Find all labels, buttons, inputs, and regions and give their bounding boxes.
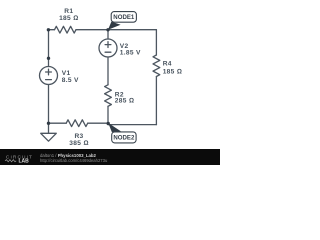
node flag NODE2 — [108, 123, 136, 143]
wire V2 top lead — [107, 30, 109, 39]
svg-text:NODE1: NODE1 — [113, 14, 135, 21]
wire right column top — [155, 30, 157, 55]
svg-text:http://circuitlab.com/c4469dea: http://circuitlab.com/c4469deah273u — [40, 158, 108, 163]
resistor R1 — [55, 26, 77, 33]
svg-text:185 Ω: 185 Ω — [59, 15, 78, 22]
svg-text:8.5 V: 8.5 V — [62, 77, 79, 84]
wire R3 to node B — [88, 122, 109, 124]
wire R2 to bottom node — [107, 106, 109, 123]
wire V1 to ground node — [48, 85, 50, 124]
junction node NODE2 anchor — [107, 122, 110, 125]
svg-text:R3: R3 — [74, 133, 83, 140]
voltage source V1 — [40, 58, 58, 84]
resistor R3 — [66, 120, 88, 127]
svg-text:LAB: LAB — [19, 158, 30, 164]
junction node NODE1 anchor — [106, 28, 109, 31]
svg-text:R4: R4 — [163, 61, 172, 68]
junction dot V1 top terminal — [47, 57, 50, 60]
junction dot top-left corner — [47, 28, 50, 31]
resistor R4 — [153, 55, 160, 77]
caption bar — [0, 149, 220, 165]
voltage source V2 — [99, 39, 117, 57]
svg-text:NODE2: NODE2 — [113, 135, 135, 142]
svg-text:285 Ω: 285 Ω — [115, 98, 134, 105]
svg-text:R1: R1 — [64, 8, 73, 15]
wire bottom right segment — [108, 124, 156, 126]
svg-text:385 Ω: 385 Ω — [69, 140, 88, 147]
svg-text:185 Ω: 185 Ω — [163, 68, 182, 75]
node flag NODE1 — [108, 12, 136, 30]
wire right column bottom — [155, 77, 157, 125]
wire top row left segment — [49, 29, 55, 31]
wire bottom left segment — [49, 122, 67, 124]
svg-text:1.85 V: 1.85 V — [120, 49, 141, 56]
ground — [41, 123, 57, 141]
wire top-left vertical (node A to V1) — [48, 30, 50, 59]
junction dot ground node — [47, 122, 50, 125]
resistor R2 — [105, 85, 112, 107]
wire V2 to R2 — [107, 57, 109, 85]
wire top row right segment — [76, 29, 156, 31]
